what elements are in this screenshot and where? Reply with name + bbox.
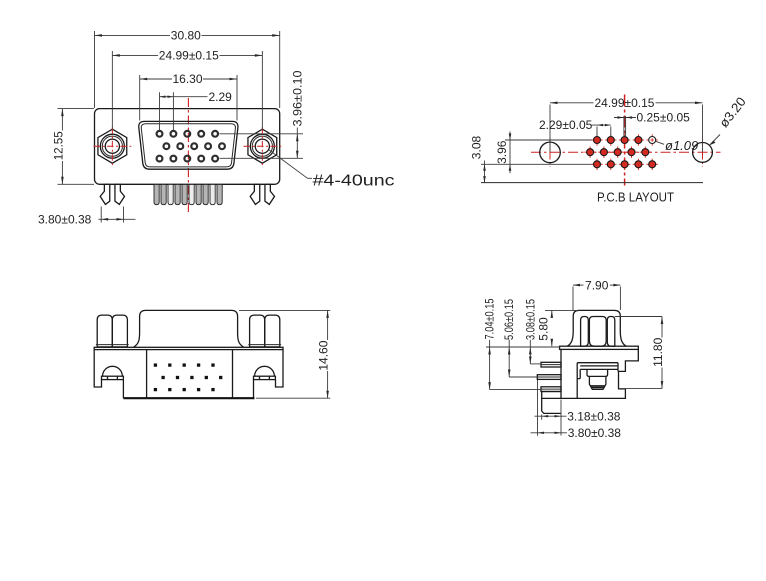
right jack screw hex nut [244, 127, 282, 165]
pad row3 col3 [619, 159, 630, 170]
dimension 3.08±0.15 [524, 299, 542, 364]
dimension 5.80 [537, 310, 578, 346]
solder pins under body [154, 184, 222, 204]
left board lock arch [102, 366, 124, 379]
mounting hole left [540, 142, 561, 163]
pad row2 col4 [626, 146, 637, 157]
svg-text:P.C.B LAYOUT: P.C.B LAYOUT [597, 190, 674, 205]
dimension 30.80 [95, 29, 280, 109]
mounting hole right [693, 143, 713, 163]
jack screw skirt (side) [567, 310, 626, 346]
pcb reference bottom line [481, 182, 703, 184]
D-shell inner outline [141, 124, 235, 167]
pad row2 col3 [612, 146, 623, 157]
socket holes row 2 [164, 143, 225, 149]
svg-text:3.80±0.38: 3.80±0.38 [568, 426, 622, 440]
extension line row3 left [481, 163, 593, 165]
leader #4-40unc [269, 150, 395, 190]
dimension 3.96±0.10 [220, 70, 305, 158]
solder tail row3 col2 [168, 388, 171, 391]
connector body front face [95, 109, 280, 185]
svg-text:14.60: 14.60 [316, 340, 330, 370]
right hex nut (top view) [248, 315, 281, 347]
solder tail row1 col4 [197, 363, 200, 366]
svg-text:3.80±0.38: 3.80±0.38 [38, 212, 92, 226]
solder tail row1 col2 [168, 363, 171, 366]
insulator section lines [146, 350, 148, 398]
flange plate (top view) [94, 347, 283, 349]
pad row2 col1 [584, 146, 595, 157]
dimension 0.25±0.05 (pcb) [614, 111, 690, 138]
dimension 3.96 (pcb) [495, 132, 512, 174]
dimension 24.99±0.15 (pcb) [550, 96, 703, 152]
solder tail row3 col1 [154, 388, 157, 391]
pad row1 col5 [647, 134, 658, 145]
D-shell outer outline [139, 121, 238, 169]
left jack screw hex nut [94, 127, 132, 165]
chamber inner wall left [577, 363, 580, 399]
svg-text:16.30: 16.30 [172, 72, 202, 86]
svg-text:0.25±0.05: 0.25±0.05 [637, 111, 691, 125]
socket holes row 1 [157, 131, 218, 137]
right board lock leg [250, 184, 274, 204]
pad row1 col2 [605, 134, 616, 145]
dimension 12.55 [51, 109, 94, 185]
extension line row1 left [505, 139, 593, 141]
pad row3 col5 [647, 159, 658, 170]
svg-text:12.55: 12.55 [51, 131, 65, 160]
solder tail row2 col5 [219, 376, 222, 379]
leader ø1.09 [655, 138, 698, 153]
solder tail row3 col4 [197, 388, 200, 391]
pad row1 col3 [619, 134, 630, 145]
solder tail row3 col5 [211, 388, 214, 391]
solder tail row2 col4 [205, 376, 208, 379]
dimension 3.18±0.38 [535, 400, 621, 436]
pcb pads [584, 134, 658, 170]
chamber top line [577, 362, 618, 364]
pad row2 col5 [640, 146, 651, 157]
hex nut (side) facet middle [589, 317, 606, 347]
dimension 5.06±0.15 [502, 299, 537, 377]
socket holes row 3 [157, 156, 218, 162]
svg-text:5.06±0.15: 5.06±0.15 [502, 299, 516, 340]
svg-text:3.08: 3.08 [469, 135, 483, 159]
svg-text:11.80: 11.80 [651, 337, 665, 366]
dimension 24.99±0.15 [112, 49, 262, 130]
flange (side) [560, 346, 639, 349]
pad row1 col4 [633, 134, 644, 145]
pad row2 col2 [598, 146, 609, 157]
mounting hole right red crosshair [702, 139, 704, 168]
solder tail row1 col1 [154, 363, 157, 366]
dimension 3.80±0.38 [531, 380, 622, 440]
svg-text:3.96±0.10: 3.96±0.10 [291, 70, 305, 126]
left board lock leg [100, 184, 124, 204]
pcb vertical centerline (red) [624, 95, 626, 186]
solder tail row1 col3 [183, 363, 186, 366]
dimension 3.80±0.38 (front) [38, 207, 136, 227]
centerline vertical (red) front view [187, 98, 189, 214]
svg-text:ø1.09: ø1.09 [665, 138, 698, 153]
dimension 11.80 [615, 317, 665, 389]
dimension 7.90 [573, 278, 620, 310]
svg-text:7.90: 7.90 [585, 278, 609, 292]
svg-text:2.29: 2.29 [209, 90, 233, 104]
hex nut (side) facet left [581, 317, 589, 347]
svg-text:24.99±0.15: 24.99±0.15 [595, 96, 655, 110]
pad row3 col1 [591, 159, 602, 170]
dimension 7.04±0.15 [483, 298, 541, 389]
right board lock arch [254, 366, 276, 379]
pad row3 col4 [633, 159, 644, 170]
solder tail row3 col3 [183, 388, 186, 391]
svg-text:3.96: 3.96 [495, 140, 509, 164]
svg-text:3.18±0.38: 3.18±0.38 [567, 409, 621, 423]
dimension 16.30 [140, 72, 237, 120]
chamber plate lines [580, 365, 618, 367]
bottom plate edge (thick) [123, 397, 254, 399]
svg-text:2.29±0.05: 2.29±0.05 [539, 118, 593, 132]
svg-text:#4-40unc: #4-40unc [313, 173, 395, 190]
svg-text:24.99±0.15: 24.99±0.15 [159, 49, 219, 63]
hex nut (side) facet right [607, 317, 615, 347]
pin 3 (side) [541, 387, 561, 392]
flange extension line left [486, 346, 560, 348]
pad row1 col1 [591, 134, 602, 145]
solder tail row2 col3 [190, 376, 193, 379]
contact cup [587, 369, 608, 389]
body outline (top view) [94, 350, 283, 399]
body profile (side) [561, 349, 638, 398]
svg-text:5.80: 5.80 [537, 317, 551, 341]
pin 2 (side) [537, 375, 561, 380]
solder tail row1 col5 [211, 363, 214, 366]
pin 1 (side) [541, 362, 561, 367]
board lock peg (side) [542, 392, 561, 414]
leader ø3.20 [709, 94, 748, 145]
pcb horizontal centerline (red) [531, 151, 721, 153]
pad row3 col2 [605, 159, 616, 170]
dimension 3.08 (pcb) [469, 135, 486, 182]
solder tail row2 col2 [176, 376, 179, 379]
dimension 2.29±0.05 (pcb) [539, 118, 611, 136]
left hex nut (top view) [96, 315, 129, 347]
svg-text:30.80: 30.80 [171, 29, 201, 43]
solder tails (squares) [154, 363, 223, 391]
dimension 14.60 [239, 310, 330, 398]
dimension 2.29 [160, 90, 233, 130]
solder tail row2 col1 [161, 376, 164, 379]
shell from top [134, 310, 244, 347]
svg-text:3.08±0.15: 3.08±0.15 [524, 299, 538, 340]
svg-text:7.04±0.15: 7.04±0.15 [483, 298, 497, 339]
mounting hole left red crosshair [549, 139, 551, 168]
